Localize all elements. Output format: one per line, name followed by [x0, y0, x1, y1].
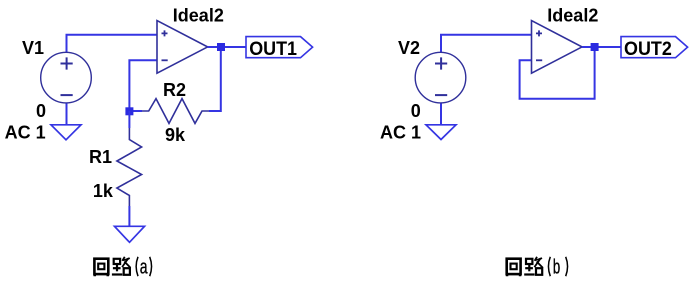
(b): [548, 257, 550, 276]
svg-text:R2: R2: [163, 80, 186, 100]
wire V1 bottom to ground: [66, 103, 68, 125]
op-amp U2: [532, 21, 583, 74]
svg-text:AC 1: AC 1: [380, 122, 421, 142]
svg-text:0: 0: [411, 101, 421, 121]
junction node output: [591, 43, 599, 51]
kanji 回: [94, 259, 110, 276]
wire R1 bottom to ground: [128, 206, 130, 226]
wire junction to R2 left: [129, 110, 142, 112]
wire op-amp output to flag: [208, 46, 246, 48]
kanji 回: [506, 259, 522, 276]
svg-text:OUT1: OUT1: [249, 38, 297, 60]
ground under V2: [426, 125, 456, 140]
svg-text:b: b: [553, 256, 560, 278]
wire op-amp - input to feedback node: [129, 60, 157, 111]
svg-text:V1: V1: [22, 38, 44, 58]
kanji 路: [112, 257, 131, 275]
kanji 路: [524, 257, 543, 275]
wire V2 bottom to ground: [440, 103, 442, 125]
resistor R2: [142, 99, 209, 124]
wire V1 top to op-amp + input: [67, 35, 158, 53]
junction node feedback: [125, 107, 133, 115]
svg-text:a: a: [140, 255, 148, 278]
svg-text:V2: V2: [398, 38, 420, 58]
net flag OUT1: [246, 37, 313, 58]
wire V2 top to op-amp + input: [441, 35, 532, 53]
svg-text:Ideal2: Ideal2: [173, 6, 224, 26]
ground under V1: [51, 125, 81, 140]
voltage source V2: [415, 52, 466, 103]
junction node output: [217, 43, 225, 51]
net flag OUT2: [621, 37, 688, 58]
op-amp U1: [157, 21, 208, 74]
wire op-amp output to flag: [582, 46, 621, 48]
svg-text:AC 1: AC 1: [5, 122, 46, 142]
ground under R1: [115, 226, 145, 242]
wire feedback loop: [520, 47, 595, 99]
svg-text:1k: 1k: [93, 181, 114, 201]
wire junction to R1 top: [128, 111, 130, 128]
svg-text:Ideal2: Ideal2: [547, 6, 598, 26]
voltage source V1: [41, 52, 92, 103]
svg-text:9k: 9k: [165, 125, 186, 145]
svg-text:0: 0: [36, 101, 46, 121]
caption 回路(b): [506, 256, 568, 278]
(a): [136, 257, 138, 276]
caption 回路(a): [94, 255, 152, 278]
wire R2 right up to output node: [209, 47, 221, 111]
resistor R1: [117, 128, 142, 206]
svg-text:OUT2: OUT2: [624, 38, 672, 60]
svg-text:R1: R1: [89, 147, 112, 167]
